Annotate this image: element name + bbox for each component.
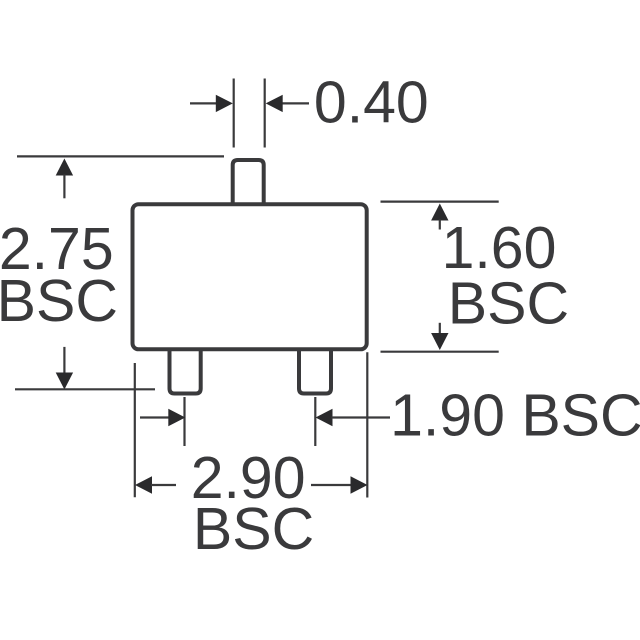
svg-text:BSC: BSC xyxy=(0,268,118,334)
extension line right of top lead (0.40 dim) xyxy=(264,79,266,148)
left arrow of 0.40 dim xyxy=(190,95,233,112)
package body xyxy=(133,204,367,349)
down arrow of 1.60 dim xyxy=(431,323,448,350)
left arrow of 1.90 dim xyxy=(140,409,185,426)
bottom lead (pin 2) xyxy=(299,349,331,394)
svg-text:0.40: 0.40 xyxy=(314,69,429,135)
dimension label BSC (bottom) xyxy=(193,496,314,562)
right arrow of 1.90 dim xyxy=(316,409,391,426)
extension line left of top lead (0.40 dim) xyxy=(233,79,235,148)
bottom lead (pin 1) xyxy=(170,349,201,394)
bottom extension line of 2.75 dim xyxy=(15,388,155,390)
center line below pin 2 (1.90 dim) xyxy=(314,397,316,446)
dimension label 0.40 xyxy=(314,69,429,135)
svg-text:BSC: BSC xyxy=(448,270,569,336)
down arrow of 2.75 dim xyxy=(56,347,73,390)
up arrow of 2.75 dim xyxy=(56,159,73,199)
top lead (pin 3) xyxy=(233,160,264,204)
bottom extension line of 1.60 dim xyxy=(381,351,499,353)
right extension line of 2.90 dim xyxy=(366,352,368,497)
dimension label 2.90 xyxy=(191,445,306,511)
right arrow of 2.90 dim xyxy=(311,476,368,493)
left extension line of 2.90 dim xyxy=(134,363,136,497)
right arrow of 0.40 dim xyxy=(266,95,309,112)
center line below pin 1 (1.90 dim) xyxy=(183,397,185,446)
dimension label 1.90 BSC xyxy=(390,382,640,448)
top extension line of 1.60 dim xyxy=(381,201,499,203)
dimension label 1.60 xyxy=(442,215,557,281)
up arrow of 1.60 dim xyxy=(431,204,448,230)
svg-text:BSC: BSC xyxy=(193,496,314,562)
svg-text:1.90 BSC: 1.90 BSC xyxy=(390,382,640,448)
left arrow of 2.90 dim xyxy=(135,476,176,493)
top extension line of 2.75 dim xyxy=(17,155,224,157)
dimension label 2.75 xyxy=(0,216,114,282)
dimension label BSC (right) xyxy=(448,270,569,336)
dimension label BSC (left) xyxy=(0,268,118,334)
